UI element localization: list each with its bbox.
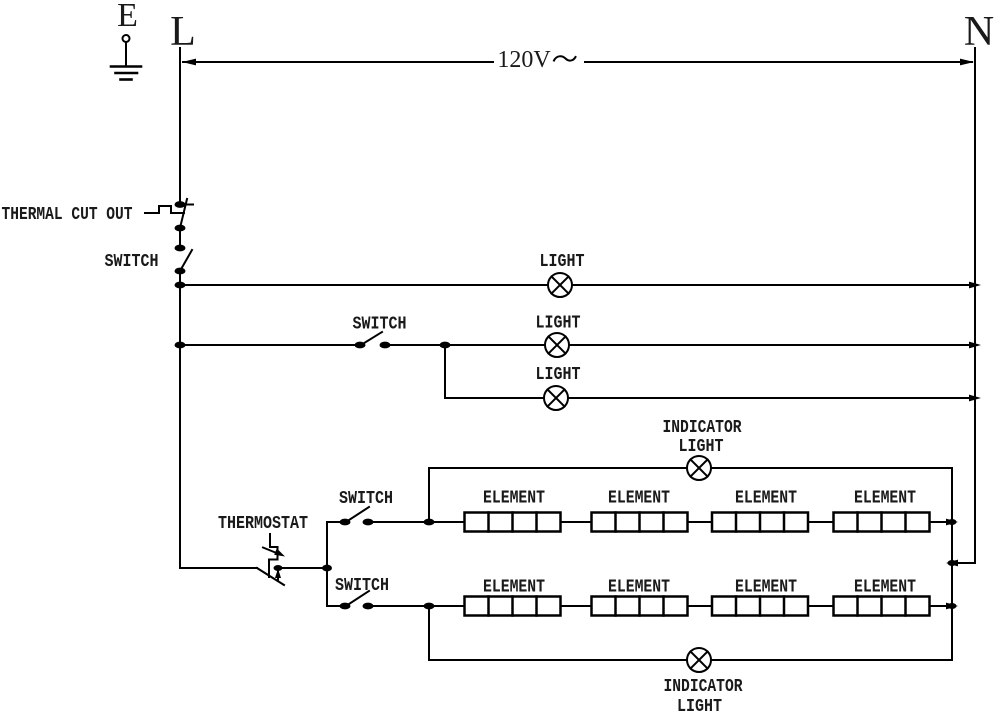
svg-text:LIGHT: LIGHT bbox=[679, 436, 724, 457]
node switch S1 top contact bbox=[175, 245, 186, 252]
arrowhead thermostat stub up bbox=[275, 569, 281, 579]
thermal cut out contact bar bbox=[180, 204, 193, 206]
lamp LIGHT A bbox=[548, 273, 572, 297]
svg-text:SWITCH: SWITCH bbox=[353, 314, 407, 335]
earth terminal circle bbox=[123, 35, 130, 42]
wire thermostat output bbox=[278, 567, 327, 569]
wire bottom branch to switch bbox=[327, 605, 345, 607]
wire between E1 E2 bbox=[561, 521, 592, 523]
svg-text:INDICATOR: INDICATOR bbox=[663, 417, 743, 438]
svg-text:ELEMENT: ELEMENT bbox=[854, 577, 916, 598]
svg-text:ELEMENT: ELEMENT bbox=[483, 488, 545, 509]
thermostat output stub bbox=[277, 568, 279, 581]
arrowhead at L bbox=[182, 59, 196, 66]
svg-text:120V: 120V bbox=[497, 47, 551, 73]
wire top branch to switch bbox=[327, 521, 345, 523]
wire L rail between cutout and switch bbox=[179, 228, 181, 248]
node bottom row at rail bbox=[948, 603, 957, 609]
node top loop left junction bbox=[424, 519, 435, 526]
svg-text:LIGHT: LIGHT bbox=[677, 696, 722, 717]
element E2 bbox=[592, 513, 688, 532]
node switch S2 left contact bbox=[355, 342, 366, 349]
wire E8 to right rail bbox=[930, 605, 951, 607]
svg-text:INDICATOR: INDICATOR bbox=[664, 676, 744, 697]
node branch point bbox=[322, 565, 332, 572]
wire B right segment bbox=[385, 344, 973, 346]
element E5 bbox=[465, 597, 561, 616]
wire right loop rail bbox=[951, 468, 953, 660]
thermostat actuator zigzag bbox=[269, 534, 278, 577]
arrowhead wire B at N bbox=[969, 342, 981, 349]
svg-text:ELEMENT: ELEMENT bbox=[854, 488, 916, 509]
node switch S4 left contact bbox=[340, 603, 351, 610]
node thermal cutout top contact bbox=[175, 201, 186, 208]
svg-text:SWITCH: SWITCH bbox=[339, 488, 393, 509]
arrowhead top element row at rail bbox=[946, 519, 958, 526]
dimension line 120V left segment bbox=[183, 61, 493, 63]
node wire A at L rail bbox=[175, 282, 186, 289]
svg-text:ELEMENT: ELEMENT bbox=[735, 577, 797, 598]
wire top loop left rail bbox=[428, 468, 430, 522]
svg-text:LIGHT: LIGHT bbox=[540, 251, 585, 272]
node switch S4 right contact bbox=[363, 603, 374, 610]
node jog at rail bbox=[948, 560, 957, 566]
wire between E3 E4 bbox=[808, 521, 834, 523]
arrowhead wire A at N bbox=[969, 282, 981, 289]
node thermostat output bbox=[274, 565, 283, 571]
wire E4 to right rail bbox=[930, 521, 951, 523]
switch S1 blade bbox=[180, 250, 192, 271]
wire top branch after switch bbox=[368, 521, 465, 523]
arrowhead at N bbox=[960, 59, 974, 66]
thermal cut out actuator step bbox=[145, 206, 184, 213]
wire N rail bbox=[974, 48, 976, 563]
tilde symbol bbox=[554, 56, 576, 60]
arrowhead wire C at N bbox=[969, 395, 981, 402]
node wire B drop junction bbox=[440, 342, 451, 349]
wire L rail upper bbox=[179, 48, 181, 204]
wire A horizontal bbox=[180, 284, 973, 286]
element E4 bbox=[834, 513, 930, 532]
node bottom loop left junction bbox=[424, 603, 435, 610]
lamp LIGHT B bbox=[545, 333, 569, 357]
node switch S2 right contact bbox=[380, 342, 391, 349]
svg-text:THERMOSTAT: THERMOSTAT bbox=[218, 513, 308, 534]
thermostat blade bbox=[257, 568, 284, 585]
dimension line 120V right segment bbox=[585, 61, 972, 63]
earth stem wire bbox=[125, 42, 127, 65]
thermostat thermal arrow bbox=[263, 548, 279, 555]
arrowhead bottom element row at rail bbox=[946, 603, 958, 610]
wire between E6 E7 bbox=[688, 605, 713, 607]
svg-text:ELEMENT: ELEMENT bbox=[608, 488, 670, 509]
node switch S1 bottom contact bbox=[175, 268, 186, 275]
node switch S3 right contact bbox=[363, 519, 374, 526]
svg-text:ELEMENT: ELEMENT bbox=[735, 488, 797, 509]
wire bottom branch after switch bbox=[368, 605, 465, 607]
element E6 bbox=[592, 597, 688, 616]
switch S2 blade bbox=[361, 332, 382, 345]
svg-text:SWITCH: SWITCH bbox=[105, 251, 159, 272]
wire drop from B to C bbox=[444, 345, 446, 398]
wire B left segment bbox=[180, 344, 360, 346]
node wire B at L rail bbox=[175, 342, 186, 349]
wire branch vertical bbox=[326, 522, 328, 606]
svg-text:LIGHT: LIGHT bbox=[536, 313, 581, 334]
arrowhead thermostat thermal arrow bbox=[274, 548, 285, 556]
wire between E2 E3 bbox=[688, 521, 713, 523]
arrowhead jog at rail bbox=[946, 560, 958, 567]
wire bottom loop left rail bbox=[428, 606, 430, 660]
svg-text:LIGHT: LIGHT bbox=[536, 364, 581, 385]
element E1 bbox=[465, 513, 561, 532]
wire between E5 E6 bbox=[561, 605, 592, 607]
node switch S3 left contact bbox=[340, 519, 351, 526]
lamp indicator top bbox=[687, 456, 711, 480]
svg-text:THERMAL CUT OUT: THERMAL CUT OUT bbox=[2, 204, 133, 225]
element E7 bbox=[712, 597, 808, 616]
ground bbox=[111, 67, 141, 80]
node thermal cutout bottom contact bbox=[175, 225, 186, 232]
wire N to rail jog bbox=[953, 562, 975, 564]
svg-text:SWITCH: SWITCH bbox=[335, 575, 389, 596]
element E8 bbox=[834, 597, 930, 616]
lamp LIGHT C bbox=[544, 386, 568, 410]
wire top loop top side bbox=[429, 467, 952, 469]
node top row at rail bbox=[948, 519, 957, 525]
switch S3 blade bbox=[346, 507, 369, 522]
switch S4 blade bbox=[346, 591, 369, 606]
thermal cut out blade bbox=[180, 199, 187, 228]
wire between E7 E8 bbox=[808, 605, 834, 607]
lamp indicator bottom bbox=[687, 648, 711, 672]
wire bottom loop bottom side bbox=[429, 659, 952, 661]
wire thermostat input bbox=[180, 567, 257, 569]
svg-text:N: N bbox=[964, 9, 994, 55]
svg-text:ELEMENT: ELEMENT bbox=[483, 577, 545, 598]
wire L rail lower bbox=[179, 271, 181, 568]
element E3 bbox=[712, 513, 808, 532]
svg-text:L: L bbox=[170, 9, 196, 55]
svg-text:E: E bbox=[117, 0, 138, 34]
wire C horizontal bbox=[445, 397, 973, 399]
svg-text:ELEMENT: ELEMENT bbox=[608, 577, 670, 598]
